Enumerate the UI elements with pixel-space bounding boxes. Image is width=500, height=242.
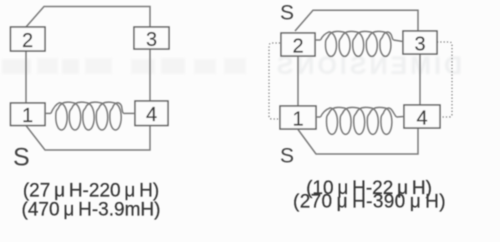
wire pin2 to pin1 <box>25 51 27 103</box>
pin 3 box <box>134 27 169 51</box>
pin 2 box (right) <box>281 33 315 58</box>
wire pin2 to pin1 (right) <box>297 56 299 106</box>
pin 3 box (right) <box>403 31 437 56</box>
svg-text:3: 3 <box>414 34 425 56</box>
left package outline bottom <box>26 126 150 151</box>
svg-text:2: 2 <box>22 30 33 52</box>
svg-text:S: S <box>13 144 30 172</box>
wire pin1 to bottom coil <box>316 116 321 118</box>
svg-text:1: 1 <box>22 105 33 127</box>
pin 4 box (right) <box>404 105 440 130</box>
svg-text:S: S <box>280 145 294 168</box>
svg-text:(470 μ H-3.9mH): (470 μ H-3.9mH) <box>22 200 161 221</box>
svg-text:2: 2 <box>292 36 303 58</box>
svg-text:4: 4 <box>146 104 157 126</box>
svg-text:S: S <box>280 2 294 25</box>
wire top coil to pin3 <box>394 40 404 42</box>
right package outline bottom <box>298 129 418 155</box>
inductor coil L1 (pins 1-4) <box>51 102 124 130</box>
right package outline top (chamfered corner) <box>295 10 418 31</box>
coupling dashed link pins 3-4 <box>437 42 452 117</box>
left package outline top (chamfered corner) <box>26 7 150 28</box>
pin 2 box <box>11 27 46 52</box>
faint show-through watermark band right (mirrored text) <box>274 52 462 80</box>
wire pin2 to top coil <box>315 39 321 41</box>
coupling dashed link pins 2-1 <box>269 43 280 119</box>
inductor coil bottom (pins 1-4) <box>321 107 397 134</box>
svg-text:(27 μ H-220 μ H): (27 μ H-220 μ H) <box>23 181 159 202</box>
inductor coil top (pins 2-3) <box>321 31 394 56</box>
pin 1 box (right) <box>280 106 316 131</box>
pin 4 box <box>135 101 168 126</box>
wire pin1 to coil <box>45 112 51 114</box>
faint show-through watermark band left <box>2 58 246 74</box>
wire bottom coil to pin4 <box>397 116 405 119</box>
svg-text:4: 4 <box>416 108 427 130</box>
wire pin3 to pin4 <box>149 49 151 101</box>
svg-text:(270 μ H-390 μ H): (270 μ H-390 μ H) <box>293 192 446 213</box>
svg-text:1: 1 <box>292 109 303 131</box>
svg-text:3: 3 <box>146 29 157 51</box>
pin 1 box <box>11 103 46 127</box>
wire pin3 to pin4 (right) <box>419 54 421 105</box>
wire coil to pin4 <box>124 112 136 114</box>
